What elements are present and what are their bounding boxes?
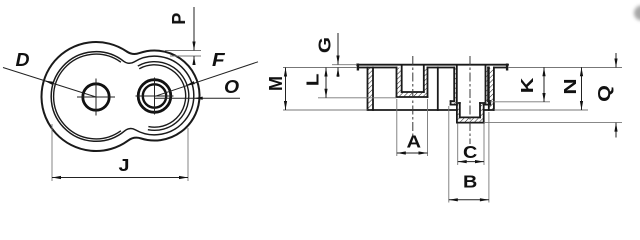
- svg-text:F: F: [212, 50, 226, 71]
- left perimeter wall: [368, 68, 374, 111]
- left boss bottom: [397, 96, 428, 98]
- dimension P extension line lower: [170, 55, 201, 57]
- dimension Q upper line: [615, 53, 617, 68]
- right boss bottom: [457, 122, 484, 124]
- left boss outer walls: [397, 68, 428, 98]
- flange bottom line: [360, 67, 506, 69]
- centerline left boss: [412, 56, 414, 136]
- dimension P line upper: [193, 7, 195, 51]
- centerline right boss: [469, 56, 471, 144]
- right boss lower bore walls: [460, 103, 480, 117]
- right hole outer circle: [138, 80, 171, 113]
- svg-text:D: D: [16, 50, 30, 70]
- left boss bore floor: [402, 91, 424, 93]
- hatch right perimeter wall: [489, 68, 493, 110]
- dimension G upper line: [337, 33, 339, 65]
- dimension G lower line: [337, 68, 339, 78]
- dimension P line lower: [193, 56, 195, 64]
- left hole: [83, 84, 109, 110]
- dimension P extension line upper: [165, 50, 201, 52]
- outer contour (figure-8 union of two lobes): [42, 42, 200, 151]
- dimension A line: [397, 152, 428, 154]
- right boss lower outer walls: [457, 105, 484, 123]
- flange top line: [357, 64, 508, 66]
- leader D line: [3, 68, 96, 98]
- right boss bore step ledges: [457, 102, 486, 104]
- right boss upper outer walls: [454, 68, 488, 102]
- leader O arrowhead: [194, 97, 203, 100]
- dimension G arrow down: [336, 56, 339, 65]
- dimension P arrow up: [192, 56, 195, 65]
- leader O line: [155, 97, 240, 99]
- ext lines B: [448, 106, 450, 203]
- ext line L bottom: [318, 97, 397, 99]
- leader F line: [155, 62, 258, 97]
- dimension N line: [581, 67, 583, 110]
- right boss collar verticals: [451, 101, 491, 104]
- ext line flange bottom left: [283, 67, 357, 69]
- dimension B arrows: [449, 198, 458, 201]
- right boss collar out ledges: [451, 100, 491, 102]
- right boss lower bore floor: [460, 116, 480, 118]
- dimension P arrow down: [192, 42, 195, 51]
- right hole centerline horizontal: [136, 95, 173, 97]
- dimension J line: [52, 177, 188, 179]
- ext line boss bottom right: [484, 122, 622, 124]
- svg-text:O: O: [224, 77, 239, 97]
- right boss upper bore walls: [457, 66, 486, 101]
- svg-text:J: J: [119, 156, 130, 176]
- dimension Q lower line: [615, 123, 617, 138]
- inner contour (wall inset): [51, 52, 194, 142]
- dimension G arrow up: [336, 68, 339, 77]
- dimension K line: [543, 67, 545, 102]
- svg-text:N: N: [561, 78, 580, 94]
- dimension A arrows: [397, 151, 406, 154]
- dimension C line: [458, 161, 484, 163]
- svg-text:K: K: [518, 77, 538, 93]
- ext line flange bottom right: [508, 67, 622, 69]
- dimension M line: [285, 68, 287, 111]
- boss step arc outer (around right hole): [138, 62, 188, 131]
- ext line step right: [490, 101, 550, 103]
- waist visible edge: [437, 68, 439, 111]
- hatch right boss: [451, 68, 491, 123]
- hatch left boss: [397, 68, 428, 98]
- boss step arc inner (around right hole): [140, 65, 186, 127]
- svg-text:L: L: [303, 73, 323, 86]
- leader F arrowhead: [185, 81, 195, 87]
- svg-text:C: C: [463, 143, 478, 163]
- left boss bore walls: [402, 66, 424, 92]
- dimension J extension right: [187, 128, 189, 181]
- dimension Q arrow up: [614, 123, 617, 132]
- svg-text:A: A: [407, 132, 422, 152]
- watermark circle top right: [634, 6, 640, 21]
- left hole centerline horizontal: [78, 96, 115, 98]
- dimension J arrow right: [179, 176, 188, 179]
- hatch left perimeter wall: [368, 68, 373, 110]
- left hole centerline vertical: [95, 79, 97, 115]
- svg-text:P: P: [169, 13, 189, 25]
- dimension K arrows: [542, 67, 545, 76]
- flange left lip: [357, 65, 359, 70]
- ext line body bottom left: [283, 109, 368, 111]
- dimension J extension left: [51, 124, 53, 181]
- dimension Q arrow down: [614, 59, 617, 68]
- svg-text:B: B: [463, 172, 477, 192]
- flange right lip: [506, 65, 508, 70]
- right boss collar in ledges: [451, 104, 491, 106]
- svg-text:Q: Q: [595, 85, 615, 102]
- dimension B line: [449, 199, 489, 201]
- ext line flange top left short: [332, 64, 357, 66]
- dimension J arrow left: [52, 176, 61, 179]
- svg-text:G: G: [315, 37, 335, 53]
- dimension M arrows: [284, 68, 287, 77]
- ext lines C: [457, 124, 459, 166]
- right hole centerline vertical: [154, 78, 156, 114]
- dimension C arrows: [458, 160, 467, 163]
- ext lines A: [396, 99, 398, 156]
- right perimeter wall: [489, 68, 494, 111]
- right hole inner circle: [143, 84, 166, 107]
- dimension L line: [325, 68, 327, 98]
- bottom rim edge line: [368, 109, 494, 111]
- dimension N arrows: [580, 67, 583, 76]
- inner contour second line on left lobe: [54, 54, 121, 139]
- dimension L arrows: [324, 68, 327, 77]
- ext line body bottom right: [494, 109, 588, 111]
- svg-text:M: M: [266, 76, 286, 91]
- leader D arrowhead: [44, 79, 54, 85]
